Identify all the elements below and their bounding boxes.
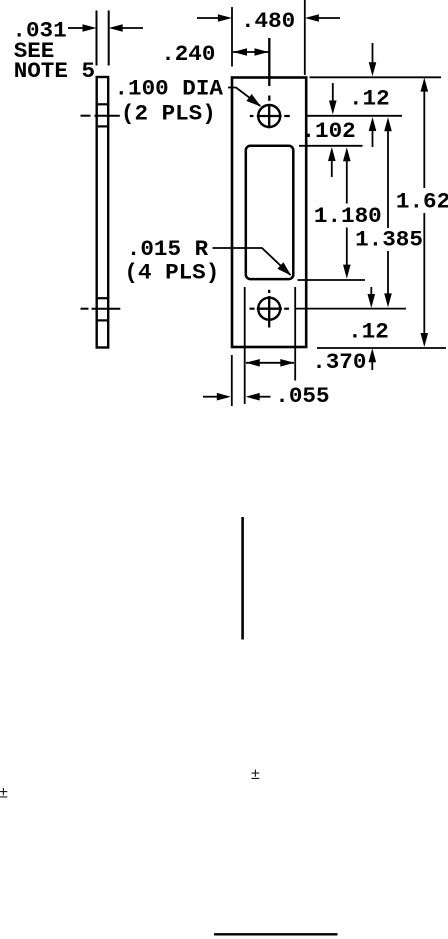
extension line top edge right [310, 76, 442, 78]
extension line slot bottom right [298, 279, 366, 281]
bottom horizontal line [214, 933, 338, 935]
dimension .480 arrows [197, 14, 340, 22]
dimension 1.180 [343, 147, 351, 278]
extension line .480 right [304, 0, 306, 75]
dimension 1.385 [384, 117, 392, 307]
extension line slot top right [299, 145, 363, 147]
extension line slot left down [244, 287, 246, 404]
dimension .031 arrows [68, 24, 143, 32]
side view hole 1 hidden lines [98, 104, 107, 126]
hole 1 [250, 104, 290, 128]
front view outline [232, 78, 306, 348]
side view hole 2 centerline [81, 308, 121, 310]
svg-text:.240: .240 [161, 41, 215, 67]
svg-text:(4 PLS): (4 PLS) [124, 260, 219, 286]
dimension .370 [246, 359, 294, 367]
svg-text:±: ± [251, 766, 260, 783]
extension line bottom edge right [317, 347, 446, 349]
extension line slot right down [294, 287, 296, 381]
side view outline [97, 77, 109, 348]
svg-text:.12: .12 [348, 318, 389, 344]
hole 2 [250, 290, 289, 328]
svg-text:1.62: 1.62 [396, 188, 448, 214]
dimension .240 [233, 48, 269, 56]
dimension .12 top arrows [369, 43, 377, 147]
leader .015 R [213, 248, 292, 276]
extension line front left down [231, 355, 233, 406]
extension line hole1 center right [307, 115, 402, 117]
svg-text:.055: .055 [275, 383, 329, 409]
side view hole 1 centerline [81, 115, 120, 117]
svg-text:.12: .12 [349, 85, 390, 111]
svg-text:±: ± [0, 785, 8, 802]
svg-text:.100 DIA: .100 DIA [115, 76, 224, 102]
extension line .480 left [231, 7, 233, 67]
extension lines .031 [97, 11, 109, 66]
svg-text:1.385: 1.385 [355, 227, 423, 253]
svg-text:NOTE 5: NOTE 5 [14, 58, 95, 84]
svg-text:.480: .480 [241, 8, 295, 34]
dimension .102 arrows [328, 83, 337, 177]
extension line hole2 center right [295, 308, 406, 310]
svg-text:.370: .370 [312, 349, 366, 375]
side view hole 2 hidden lines [98, 298, 107, 320]
vertical centerline upper [268, 38, 270, 101]
leader .100 DIA [228, 88, 261, 107]
svg-text:1.180: 1.180 [314, 203, 382, 229]
svg-text:(2 PLS): (2 PLS) [121, 100, 216, 126]
slot rounded rectangle [246, 146, 293, 279]
svg-text:.015 R: .015 R [127, 236, 209, 262]
dimension 1.62 [421, 78, 429, 347]
svg-text:.102: .102 [302, 118, 356, 144]
dimension .12 bottom arrows [368, 287, 377, 370]
dimension .055 arrows [203, 393, 271, 401]
isolated vertical border line [241, 517, 244, 640]
